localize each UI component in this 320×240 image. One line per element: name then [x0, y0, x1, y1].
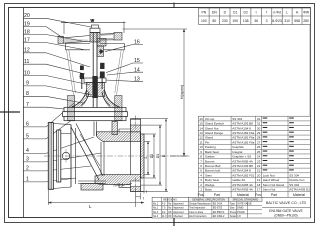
svg-text:ASTM A995 4A: ASTM A995 4A	[232, 159, 253, 163]
svg-text:D1: D1	[156, 154, 160, 159]
svg-text:(DN80—PN100): (DN80—PN100)	[274, 214, 297, 218]
svg-text:4: 4	[144, 157, 148, 159]
svg-text:Back Seat: Back Seat	[205, 150, 219, 154]
svg-text:100: 100	[201, 19, 207, 23]
svg-text:Gland: Gland	[205, 136, 213, 140]
svg-text:EN 558 F4: EN 558 F4	[213, 211, 225, 214]
svg-text:Stem Nut Gland: Stem Nut Gland	[263, 183, 285, 187]
svg-text:BS 1414: BS 1414	[213, 202, 223, 205]
svg-text:Face to Face: Face to Face	[189, 211, 204, 214]
svg-text:Pos.: Pos.	[255, 193, 262, 197]
svg-text:No.2: No.2	[153, 207, 159, 210]
svg-text:REVISIONS: REVISIONS	[163, 199, 177, 202]
svg-text:DN: DN	[212, 10, 217, 14]
svg-text:BS 6755: BS 6755	[213, 207, 223, 210]
svg-text:Oil cup: Oil cup	[205, 117, 215, 121]
svg-text:D1: D1	[233, 10, 237, 14]
svg-text:SS 304: SS 304	[232, 117, 242, 121]
svg-text:Press: Press	[230, 211, 237, 214]
svg-text:n-Φd: n-Φd	[273, 10, 281, 14]
svg-text:18: 18	[257, 183, 261, 187]
svg-text:Size: Size	[230, 207, 235, 210]
svg-text:Graphite: Graphite	[232, 145, 244, 149]
svg-text:26: 26	[257, 145, 261, 149]
svg-text:ASTM A182 F6a: ASTM A182 F6a	[232, 131, 254, 135]
svg-text:Lock Nut: Lock Nut	[263, 173, 275, 177]
svg-text:ASTM A182 F6a: ASTM A182 F6a	[232, 140, 254, 144]
svg-text:11: 11	[200, 140, 203, 144]
svg-text:SS 304: SS 304	[289, 173, 299, 177]
svg-text:15: 15	[199, 122, 203, 126]
svg-text:ASTM A995 4A: ASTM A995 4A	[232, 188, 253, 192]
svg-text:36: 36	[254, 19, 258, 23]
svg-text:D2: D2	[244, 10, 248, 14]
svg-text:14: 14	[199, 126, 203, 130]
svg-text:558: 558	[294, 19, 300, 23]
svg-text:22: 22	[257, 164, 261, 168]
svg-text:19: 19	[257, 178, 261, 182]
svg-text:PN: PN	[201, 10, 206, 14]
svg-text:24: 24	[257, 155, 261, 159]
svg-text:stellite 6A: stellite 6A	[232, 178, 245, 182]
svg-text:PN100: PN100	[237, 211, 245, 214]
svg-text:Approved: Approved	[173, 202, 184, 205]
svg-text:ASTM A182 F6a: ASTM A182 F6a	[232, 136, 254, 140]
svg-text:Material: Material	[237, 193, 249, 197]
svg-text:SPECIAL STANDARD: SPECIAL STANDARD	[233, 198, 259, 202]
svg-text:Approved: Approved	[173, 207, 184, 210]
svg-text:Checked: Checked	[173, 215, 183, 218]
svg-text:23: 23	[257, 159, 261, 163]
svg-text:17: 17	[257, 188, 261, 192]
svg-text:D: D	[162, 154, 166, 157]
svg-text:Pin: Pin	[205, 140, 210, 144]
svg-text:Part: Part	[271, 193, 277, 197]
svg-text:End Connection: End Connection	[189, 215, 207, 218]
svg-text:GATE VALVE: GATE VALVE	[237, 202, 252, 205]
svg-text:Ductile Iron: Ductile Iron	[289, 178, 305, 182]
svg-text:80: 80	[212, 19, 216, 23]
svg-text:Part: Part	[214, 193, 220, 197]
svg-text:Body Seat: Body Seat	[205, 178, 219, 182]
svg-text:L: L	[286, 10, 288, 14]
svg-text:Pos.: Pos.	[198, 193, 205, 197]
svg-text:12: 12	[199, 136, 203, 140]
svg-text:Material: Material	[293, 193, 305, 197]
svg-text:Bonnet bolt: Bonnet bolt	[205, 169, 220, 173]
svg-text:No.3: No.3	[153, 211, 159, 214]
svg-text:ASTM A194 8: ASTM A194 8	[232, 169, 251, 173]
svg-text:GENERAL SPECIFICATION: GENERAL SPECIFICATION	[192, 198, 225, 202]
svg-text:Scale: Scale	[230, 215, 237, 218]
svg-text:Bonnet Bolt: Bonnet Bolt	[205, 164, 221, 168]
svg-text:230: 230	[222, 19, 228, 23]
svg-text:ASTM A182 F51: ASTM A182 F51	[232, 173, 254, 177]
svg-text:L: L	[89, 204, 92, 209]
svg-text:f: f	[146, 190, 147, 194]
svg-text:13: 13	[199, 131, 203, 135]
svg-text:Gland Eyebolt: Gland Eyebolt	[205, 122, 224, 126]
svg-text:SS 304: SS 304	[289, 183, 299, 187]
svg-text:310: 310	[284, 19, 290, 23]
svg-text:Stem Nut: Stem Nut	[263, 188, 276, 192]
svg-text:Test Inspection: Test Inspection	[189, 207, 206, 210]
svg-text:Packing: Packing	[205, 145, 216, 149]
svg-text:Gland Nut: Gland Nut	[205, 126, 219, 130]
svg-text:ΦW: ΦW	[303, 10, 310, 14]
svg-text:No.4: No.4	[153, 215, 159, 218]
svg-text:Hand Wheel: Hand Wheel	[263, 178, 280, 182]
svg-text:30: 30	[257, 126, 261, 130]
svg-text:D2: D2	[150, 154, 154, 159]
svg-text:8-Φ23: 8-Φ23	[272, 19, 282, 23]
svg-text:Bonnet: Bonnet	[205, 159, 215, 163]
svg-text:16: 16	[199, 117, 203, 121]
svg-text:190: 190	[232, 19, 238, 23]
svg-text:280: 280	[303, 19, 309, 23]
svg-text:25: 25	[257, 150, 261, 154]
svg-text:11.3: 11.3	[162, 215, 167, 218]
svg-text:16: 16	[134, 40, 140, 46]
svg-text:OK: OK	[168, 215, 172, 218]
svg-text:Wedge: Wedge	[205, 183, 215, 187]
svg-text:138: 138	[243, 19, 249, 23]
svg-text:21: 21	[257, 169, 261, 173]
svg-text:EN1984 GATE VALVE: EN1984 GATE VALVE	[269, 209, 303, 213]
svg-text:EN 1092-2: EN 1092-2	[213, 215, 225, 218]
svg-text:Approved: Approved	[173, 211, 184, 214]
svg-text:10: 10	[199, 145, 203, 149]
svg-text:Design Manufacture: Design Manufacture	[189, 202, 211, 205]
svg-text:ASTM A193 B8: ASTM A193 B8	[232, 122, 253, 126]
svg-text:ASTM A439 D2: ASTM A439 D2	[289, 188, 310, 192]
svg-text:f: f	[266, 10, 267, 14]
svg-text:Integral: Integral	[232, 150, 242, 154]
svg-text:t: t	[143, 197, 144, 201]
svg-text:Type: Type	[230, 202, 236, 205]
svg-text:BALTIC VALVE CO., LTD: BALTIC VALVE CO., LTD	[266, 201, 307, 205]
svg-text:n-Φd: n-Φd	[114, 183, 124, 188]
svg-text:ASTM A995 4A: ASTM A995 4A	[232, 183, 253, 187]
svg-text:27: 27	[257, 140, 261, 144]
svg-text:ASTM A193 B8: ASTM A193 B8	[232, 164, 253, 168]
svg-text:31: 31	[257, 122, 261, 126]
svg-text:ASTM A194 8: ASTM A194 8	[232, 126, 251, 130]
svg-text:t: t	[256, 10, 257, 14]
svg-text:Gland Flange: Gland Flange	[205, 131, 223, 135]
svg-text:20: 20	[257, 173, 261, 177]
svg-text:DN80: DN80	[237, 207, 244, 210]
svg-text:Graphite + SS: Graphite + SS	[232, 155, 251, 159]
svg-text:H(open): H(open)	[179, 84, 184, 99]
svg-text:Stem: Stem	[205, 173, 213, 177]
svg-text:No.1: No.1	[153, 202, 159, 205]
svg-text:32: 32	[257, 117, 261, 121]
svg-text:29: 29	[257, 131, 261, 135]
svg-text:OK: OK	[168, 211, 172, 214]
svg-text:3: 3	[266, 19, 268, 23]
svg-text:28: 28	[257, 136, 261, 140]
svg-text:Gasket: Gasket	[205, 155, 215, 159]
svg-text:Body: Body	[205, 188, 212, 192]
